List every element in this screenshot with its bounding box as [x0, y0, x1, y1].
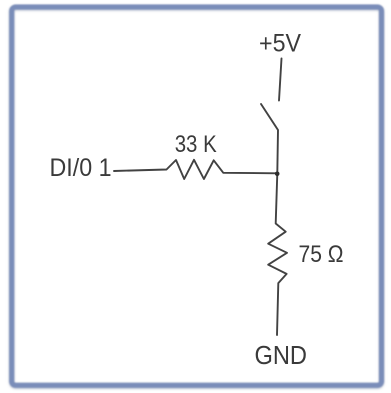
svg-text:GND: GND [255, 340, 308, 370]
svg-text:DI/0 1: DI/0 1 [50, 154, 112, 182]
svg-text:33 K: 33 K [175, 131, 217, 158]
wire from +5V to switch [279, 59, 282, 101]
resistor 75 ohm with wires (vertical) [268, 173, 287, 335]
resistor 33K with wires (horizontal) [114, 160, 277, 179]
svg-text:75 Ω: 75 Ω [299, 241, 344, 268]
node junction dot [275, 172, 280, 177]
svg-text:+5V: +5V [259, 30, 301, 58]
switch S1 (open blade) [261, 104, 278, 173]
